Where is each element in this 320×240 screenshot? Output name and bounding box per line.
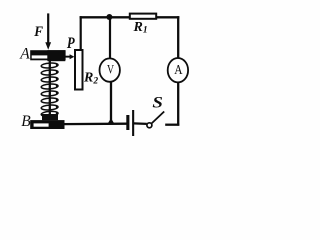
ammeter A bbox=[168, 58, 188, 82]
wiper arrow P head bbox=[70, 54, 75, 59]
wire top horizontal from R2 riser to right corner bbox=[80, 16, 180, 18]
wire right branch upper (top wire to ammeter) bbox=[177, 16, 179, 59]
plate A (upper capacitor-style plate) bbox=[30, 50, 65, 60]
plate B (lower plate) bbox=[30, 120, 64, 129]
force arrow F shaft bbox=[47, 13, 49, 43]
wiper arrow P shaft bbox=[63, 56, 71, 58]
svg-text:A: A bbox=[19, 46, 30, 63]
svg-text:B: B bbox=[21, 113, 31, 130]
resistor R1 bbox=[130, 14, 156, 19]
junction dot (top node) bbox=[106, 14, 112, 20]
svg-text:F: F bbox=[33, 23, 43, 40]
wire bottom left: plate B to battery bbox=[64, 123, 127, 126]
switch S pivot circle bbox=[147, 123, 152, 128]
voltmeter V bbox=[100, 58, 120, 81]
wire battery to switch pivot bbox=[134, 122, 147, 125]
wire voltmeter branch lower bbox=[110, 81, 112, 125]
wire left riser from top wire down to R2 top bbox=[80, 16, 82, 50]
junction triangle (bottom node) bbox=[107, 118, 115, 124]
svg-text:V: V bbox=[107, 63, 115, 77]
switch S blade bbox=[152, 112, 165, 124]
svg-text:S: S bbox=[152, 93, 163, 111]
battery positive plate (long thin) bbox=[132, 110, 134, 136]
svg-text:P: P bbox=[67, 35, 75, 53]
wire voltmeter branch upper bbox=[109, 17, 111, 60]
svg-text:A: A bbox=[174, 62, 182, 77]
wire bottom right horizontal to switch fixed contact bbox=[165, 124, 179, 126]
force arrow F head bbox=[45, 42, 51, 50]
spring (coil between plates A and B) bbox=[41, 59, 59, 117]
spring end bar on plate B bbox=[42, 114, 58, 120]
resistor R2 bbox=[75, 50, 83, 90]
wire right branch lower (ammeter to bottom corner) bbox=[177, 82, 179, 126]
battery negative plate (short thick) bbox=[126, 115, 129, 130]
